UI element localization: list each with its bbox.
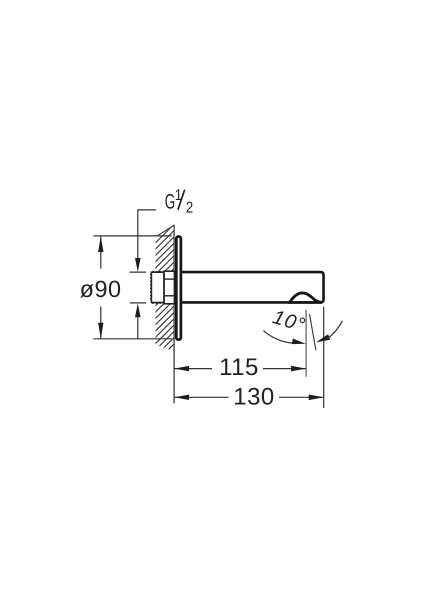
thread OD top extension line: [130, 271, 147, 273]
G1/2 label: [165, 187, 193, 217]
dim 130 arrow right: [309, 395, 324, 401]
wall face line + left extension line of 115/130: [173, 225, 175, 404]
svg-text:130: 130: [233, 384, 275, 411]
svg-text:2: 2: [186, 200, 193, 217]
angle arc left arrowhead: [292, 339, 306, 345]
wall hatching: [140, 212, 180, 403]
nut facet line top: [164, 278, 174, 280]
flange plate: [176, 237, 181, 340]
dim Ø90 top extension line: [93, 235, 171, 237]
dim Ø90 arrow up: [98, 236, 103, 252]
right extension line at spout tip: [323, 307, 325, 409]
dim Ø90 dimension line: [100, 237, 102, 269]
G1/2 leader line: [138, 210, 156, 259]
G1/2 lower arrow up: [135, 303, 141, 317]
dim 115 arrow left: [174, 366, 189, 371]
svg-text:ø90: ø90: [80, 276, 122, 302]
dim 130 line: [174, 396, 228, 398]
angle arc right arrowhead: [316, 334, 330, 342]
svg-text:115: 115: [219, 354, 259, 381]
wall top cut edge: [157, 225, 174, 236]
dim Ø90 bottom extension line: [93, 338, 171, 340]
dim Ø90 arrow down: [98, 323, 103, 339]
angle arc left: [263, 331, 296, 344]
dim 115 arrow right: [291, 366, 306, 372]
svg-text:G: G: [165, 190, 175, 213]
G1/2 lower line: [137, 317, 139, 339]
threaded stub: [151, 271, 164, 303]
vertical reference line at aerator: [305, 310, 307, 377]
nut G1/2: [164, 271, 174, 304]
thread OD bottom extension line: [130, 302, 146, 304]
angle arc right: [327, 321, 343, 340]
nut facet line bottom: [164, 295, 174, 297]
dim 115 line: [174, 368, 212, 370]
spout bottom edge under lip: [288, 301, 322, 304]
spout body: [182, 272, 324, 302]
10 deg tilted line: [310, 314, 316, 350]
spout outlet lip: [290, 293, 321, 302]
dim 130 arrow left: [174, 395, 189, 400]
G1/2 leader arrow down: [135, 258, 141, 272]
